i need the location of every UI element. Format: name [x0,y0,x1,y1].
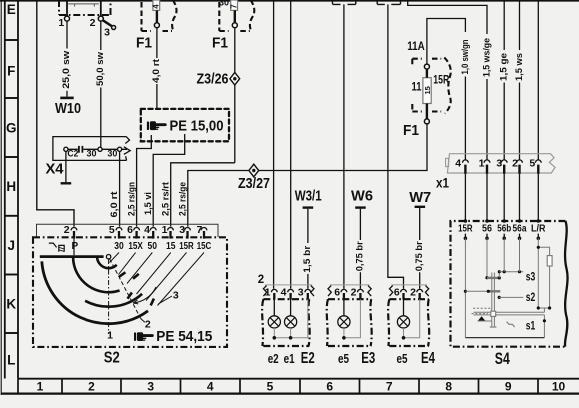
svg-text:e5: e5 [397,351,408,366]
S4 terminal 56 [485,219,489,223]
svg-text:1: 1 [265,287,271,299]
wire stub to E4 pin 6 [388,4,404,288]
svg-text:1,5 vi: 1,5 vi [143,192,153,215]
S4 terminal L/R [537,219,541,223]
S2 dashed body [33,237,227,347]
svg-text:9: 9 [505,380,512,394]
E3 pin 2 [358,289,364,292]
wire Z3/26 to rail [234,85,236,163]
svg-text:2: 2 [351,287,357,299]
x1 pin 2 [517,160,523,163]
S2 contact segment at 135.9,276.3 [133,274,139,279]
E4 pin 6 [401,289,407,292]
wire 1,5 ge [503,2,505,160]
svg-text:11: 11 [412,81,422,93]
wire to x1 pin 5 [537,2,539,160]
svg-text:s2: s2 [526,290,536,304]
svg-text:6: 6 [326,380,333,394]
E2 pin 4 [288,289,294,292]
svg-text:4: 4 [152,4,161,9]
wire x1 pin 1-56 to S4 [486,174,488,221]
svg-text:2: 2 [88,380,95,394]
S4 torn right edge [565,221,568,347]
svg-text:2: 2 [258,274,264,286]
svg-text:E3: E3 [361,350,375,367]
wire pin1 to W10 with label 25,0 sw [66,21,68,96]
wire fuse2 down to Z3/26 [234,28,236,73]
fuse element 15 [423,78,431,104]
S2 contact wire 15C [158,253,205,306]
S2 pin 7 / terminal 15C [201,228,207,231]
svg-text:15R: 15R [433,75,450,87]
S4 s1 slider bar [474,312,545,315]
S4 detent symbol [507,322,515,327]
E3 pin 6 [341,289,347,292]
svg-text:1: 1 [107,330,113,342]
S2 contact wire 15R [146,253,187,301]
pin 2 [98,16,103,21]
svg-text:G: G [6,120,17,135]
S2 pin 6 / terminal 15X [134,228,140,231]
wire top edge to S2 pin 2 (P) [37,2,74,227]
svg-text:30: 30 [107,149,117,159]
S2 key position 2 (dashed) [110,259,141,319]
x1 pin 5 [535,160,541,163]
S2 contact segment at 152.3,302 [151,299,154,306]
wire 1,5 ws/ge from top loop [408,0,487,160]
svg-text:1,5 ws/ge: 1,5 ws/ge [482,38,492,77]
svg-text:3: 3 [173,290,179,302]
switch lever to contact 3 [103,20,112,26]
svg-text:1,0 sw/gn: 1,0 sw/gn [460,40,470,75]
S4 s3 contact line [499,271,523,273]
wire stub to E3 pin 6 [343,4,345,288]
S2 reference PE 54,15 [134,332,154,341]
svg-text:W3/1: W3/1 [295,188,322,205]
svg-text:2,5 rs/ge: 2,5 rs/ge [178,182,188,216]
wire pin2 to X4 with label 50,0 sw [100,21,102,147]
svg-text:6: 6 [127,224,133,236]
wire top to E2 pin 4 [290,2,292,289]
S2 contact segment at 129.7,295.6 [128,293,132,299]
S2 contact wire 15 [137,253,171,295]
svg-text:2: 2 [410,287,416,299]
E4 lamp e5 [403,299,405,316]
svg-text:F1: F1 [136,35,152,52]
S4 index triangle [478,316,486,321]
S4 s2 contact line [498,296,501,299]
S2 contact segment at 122.3,274.5 [119,272,125,276]
svg-text:5: 5 [109,224,115,236]
resistor [547,256,552,266]
svg-text:1,5 br: 1,5 br [302,245,312,273]
svg-text:E4: E4 [421,350,435,367]
wire 2,5 rs/gn (PE box to S2 pin 6) [137,135,152,227]
svg-text:2,5 rs/gn: 2,5 rs/gn [126,182,136,216]
svg-text:3: 3 [496,158,502,170]
S2 contact arc lower [85,294,142,307]
svg-text:x1: x1 [436,175,449,190]
E2 lamp e2 [273,299,275,316]
bottom ruler row [18,378,579,380]
svg-text:2: 2 [90,17,96,29]
svg-text:F1: F1 [212,35,228,52]
svg-text:2: 2 [512,158,518,170]
wire 1,5 vi (PE box to S2 pin 4) [153,134,185,227]
svg-text:10: 10 [552,380,566,394]
S2 contact arc small [97,257,117,268]
wire 2,5 rs/ge (Z3/27 rail to S2 pin 3) [188,124,427,227]
svg-text:2: 2 [64,224,70,236]
S2 contact wire 30 [110,253,120,263]
svg-text:15C: 15C [197,241,212,252]
S2 key position 1 (dash-dot) [108,259,110,334]
svg-text:e5: e5 [338,351,349,366]
S4 L/R branch with resistor [538,238,549,312]
S4 pivot square [491,311,496,316]
fuse F1 (second, cut at top) [219,2,250,31]
svg-text:4,0 rt: 4,0 rt [151,59,161,83]
svg-text:3: 3 [104,27,110,39]
svg-text:5: 5 [267,380,274,394]
S4 s1 return [543,315,545,338]
S2 P contact line [73,239,75,256]
svg-text:56b: 56b [497,223,511,235]
svg-text:W10: W10 [55,100,81,117]
E3 lamp e5 [343,299,345,316]
x1 pin 3 [501,160,507,163]
wire fuse1 to PE box, label 4,0 rt [156,28,158,109]
svg-text:50,0 sw: 50,0 sw [95,51,105,86]
S2 contact arc mid [73,258,120,292]
S2 pin 2 / terminal P [71,228,77,231]
connector x1 [447,154,555,173]
svg-text:H: H [6,179,16,194]
svg-text:30: 30 [219,0,229,7]
svg-text:6,0 rt: 6,0 rt [109,192,119,218]
svg-text:1,5 ge: 1,5 ge [499,53,509,81]
svg-text:7: 7 [229,4,238,9]
S2 pivot [106,255,110,259]
svg-text:0,75 br: 0,75 br [355,241,365,271]
x1 pin 1 [484,160,490,163]
svg-text:s3: s3 [526,270,536,284]
connector stub at top (E3 feed) [333,0,356,4]
svg-text:0,75 br: 0,75 br [414,241,424,271]
E4 internal return wire [404,299,420,338]
reference box PE 15,00 [141,109,229,141]
svg-text:2: 2 [145,319,151,331]
wire 1,5 ws [519,2,521,160]
X4 ground [65,152,67,183]
wire x1 pin 2-56a to S4 [519,174,521,221]
S2 pin 1 / terminal 15 [168,228,174,231]
svg-text:PE 54,15: PE 54,15 [156,329,212,345]
connector stub at top (E4 feed) [377,0,400,4]
svg-text:56a: 56a [513,223,527,235]
S2 connector strip [37,224,219,237]
S2 rotor bar [40,255,104,258]
svg-text:F: F [7,64,15,79]
wire x1 pin 4-15R to S4 [464,174,466,221]
wire x1 pin 3-56b to S4 [503,174,505,221]
S2 contact wire 50 [127,253,152,284]
S2 pin 5 / terminal 30 [116,228,122,231]
headlamp switch S4 body [451,221,566,347]
wire top to E2 pin 1 [273,2,275,289]
svg-text:6: 6 [394,287,400,299]
E4 pin 2 [417,289,423,292]
svg-text:E2: E2 [301,350,315,367]
svg-text:F1: F1 [403,122,419,139]
S2 contact wire 15X [119,253,136,275]
pin 1 [65,16,70,21]
lamp unit E3 [330,284,370,286]
svg-text:4: 4 [455,158,461,170]
svg-text:50: 50 [148,241,158,252]
E2 internal return wire [274,299,308,338]
node Z3/26 [230,72,240,85]
S4 terminal 56b [502,219,506,223]
svg-text:1: 1 [479,158,485,170]
connector component S (cut at top edge), pins 1,2,3 [59,0,111,15]
svg-text:s1: s1 [526,318,536,332]
E2 pin 1 [271,289,277,292]
svg-text:X4: X4 [46,160,65,177]
left ruler column [0,0,2,395]
svg-text:L: L [7,353,15,368]
svg-text:11A: 11A [407,41,425,53]
E2 pin 3 [305,289,311,292]
svg-text:3: 3 [179,224,185,236]
x1 pin 4 [463,160,469,163]
ground W10 [60,97,73,100]
svg-text:30: 30 [87,149,97,159]
S4 internal wiring [464,238,466,337]
S4 terminal 56a [518,219,522,223]
svg-text:30: 30 [114,241,124,252]
svg-text:PE 15,00: PE 15,00 [170,118,224,134]
svg-text:15R: 15R [179,241,194,252]
E3 internal return wire [344,299,361,338]
lamp unit E4 [391,284,427,286]
svg-text:e2: e2 [268,351,279,366]
svg-text:25,0 sw: 25,0 sw [61,50,71,89]
X4 internal bus wire [68,148,127,150]
svg-text:7: 7 [196,224,202,236]
svg-text:4: 4 [281,287,287,299]
svg-text:J: J [7,238,15,253]
svg-text:3: 3 [298,287,304,299]
wire 6,0 rt (X4 to S2 pin 5) [119,152,121,227]
node Z3/27 [249,164,259,177]
svg-text:E: E [7,2,16,17]
svg-text:3: 3 [147,380,154,394]
S2 key position 3 pointer [159,296,173,304]
S4 actuator shaft [492,273,495,327]
svg-text:C2: C2 [67,149,78,159]
S2 contact arc outer [42,261,148,323]
S2 rotation arrow [133,287,156,303]
S2 pin 4 / terminal 50 [150,228,156,231]
svg-text:4: 4 [207,380,214,394]
svg-text:e1: e1 [284,351,295,366]
svg-text:S2: S2 [104,350,120,367]
svg-text:Z3/27: Z3/27 [238,175,270,192]
connector inner detail (cut) [66,0,68,16]
svg-text:2,5 rs/rt: 2,5 rs/rt [160,182,170,216]
wire 2,5 rs/rt (rail to S2 pin 1) [171,163,235,227]
svg-text:6: 6 [334,287,340,299]
svg-text:15: 15 [166,241,176,252]
svg-text:15: 15 [423,86,432,94]
svg-text:P: P [71,241,78,252]
wire fuse top to x1 pin 4, label 1,0 sw/gn [427,19,466,160]
svg-text:1: 1 [58,17,64,29]
svg-text:1: 1 [37,380,44,394]
fuse F1 (left, cut at top) [142,2,173,31]
wire x1 pin 5-L/R to S4 [537,174,539,221]
svg-text:8: 8 [445,380,452,394]
svg-text:56: 56 [482,223,492,235]
svg-text:7: 7 [386,380,393,394]
X4 terminal circles [64,147,68,151]
svg-text:1: 1 [162,224,168,236]
svg-text:K: K [6,297,16,312]
S2 key mechanical symbol [49,243,57,247]
fuse pins [426,69,428,78]
svg-text:15X: 15X [128,241,143,252]
terminal block X4 [53,137,127,161]
S4 terminal 15R [464,219,468,223]
svg-text:W7: W7 [409,189,431,206]
page top border [0,0,579,2]
S2 pin 3 / terminal 15R [185,228,191,231]
svg-text:5: 5 [529,158,535,170]
svg-text:S4: S4 [495,349,510,368]
svg-text:1,5 ws: 1,5 ws [514,53,524,81]
svg-text:15R: 15R [458,223,473,235]
svg-text:L/R: L/R [531,223,546,235]
svg-text:4: 4 [144,224,150,236]
X4 separable contact [78,146,80,153]
svg-text:W6: W6 [351,188,373,205]
svg-text:Z3/26: Z3/26 [197,71,229,88]
E2 lamp e1 [290,299,292,316]
